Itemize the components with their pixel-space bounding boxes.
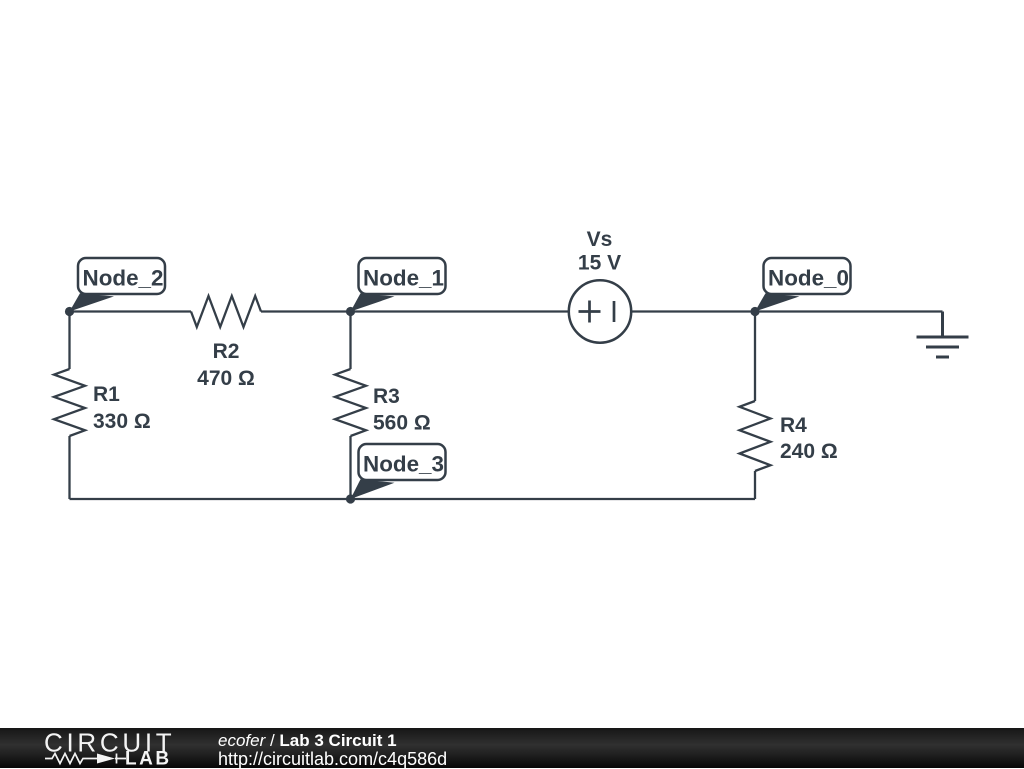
svg-text:R1: R1 <box>93 383 120 406</box>
wire: top rail, Node_2 junction to R2 left lead <box>70 310 192 312</box>
svg-text:240 Ω: 240 Ω <box>780 440 838 463</box>
svg-text:Vs: Vs <box>587 228 613 251</box>
svg-text:R4: R4 <box>780 414 807 437</box>
wire: left branch, Node_2 junction down to R1 top lead <box>68 312 70 370</box>
wire: Node_0 junction to ground lead <box>755 310 943 312</box>
wire: middle branch, R3 bottom lead down to Node_3 junction <box>349 436 351 499</box>
svg-text:330 Ω: 330 Ω <box>93 410 151 433</box>
svg-text:R3: R3 <box>373 385 400 408</box>
svg-text:LAB: LAB <box>125 749 172 769</box>
wire: top rail, Node_1 junction to Vs left terminal <box>351 310 569 312</box>
svg-text:15 V: 15 V <box>578 252 621 275</box>
svg-text:Node_3: Node_3 <box>363 451 444 476</box>
wire: bottom rail, left corner to Node_3 junction <box>70 498 351 500</box>
footer url text <box>218 750 447 768</box>
svg-text:Node_1: Node_1 <box>363 265 444 290</box>
junction dot Node_1 <box>346 307 355 316</box>
svg-text:560 Ω: 560 Ω <box>373 412 431 435</box>
CircuitLab logo <box>0 728 220 768</box>
resistor R3 (560 Ω) zigzag <box>335 369 366 436</box>
footer bar <box>0 728 1024 768</box>
node label Node_0 <box>755 258 851 312</box>
footer title text: ecofer / Lab 3 Circuit 1 <box>218 732 397 750</box>
junction dot Node_3 <box>346 494 355 503</box>
svg-text:Node_0: Node_0 <box>768 265 849 290</box>
wire: middle branch, Node_1 junction down to R3 top lead <box>349 312 351 370</box>
resistor R4 (240 Ω) zigzag <box>740 401 771 471</box>
junction dot Node_0 <box>750 307 759 316</box>
svg-text:470 Ω: 470 Ω <box>197 367 255 390</box>
wire: top rail, R2 right lead to Node_1 junction <box>261 310 351 312</box>
wire: top rail, Vs right terminal to Node_0 junction <box>632 310 756 312</box>
resistor R2 (470 Ω) zigzag <box>191 296 261 327</box>
resistor R1 (330 Ω) zigzag <box>54 369 85 436</box>
ground symbol <box>917 312 969 358</box>
wire: right branch, R4 bottom lead down to bottom rail <box>754 471 756 499</box>
voltage source Vs (15 V) <box>569 280 631 342</box>
wire: right branch, Node_0 junction down to R4 top lead <box>754 312 756 402</box>
wire: bottom rail, Node_3 junction to right corner <box>351 498 756 500</box>
wire: left branch, R1 bottom lead down to bottom rail <box>68 436 70 499</box>
node label Node_1 <box>351 258 446 312</box>
node label Node_2 <box>70 258 166 312</box>
junction dot Node_2 <box>65 307 74 316</box>
node label Node_3 <box>351 444 446 499</box>
svg-text:R2: R2 <box>213 340 240 363</box>
svg-text:Node_2: Node_2 <box>83 265 164 290</box>
